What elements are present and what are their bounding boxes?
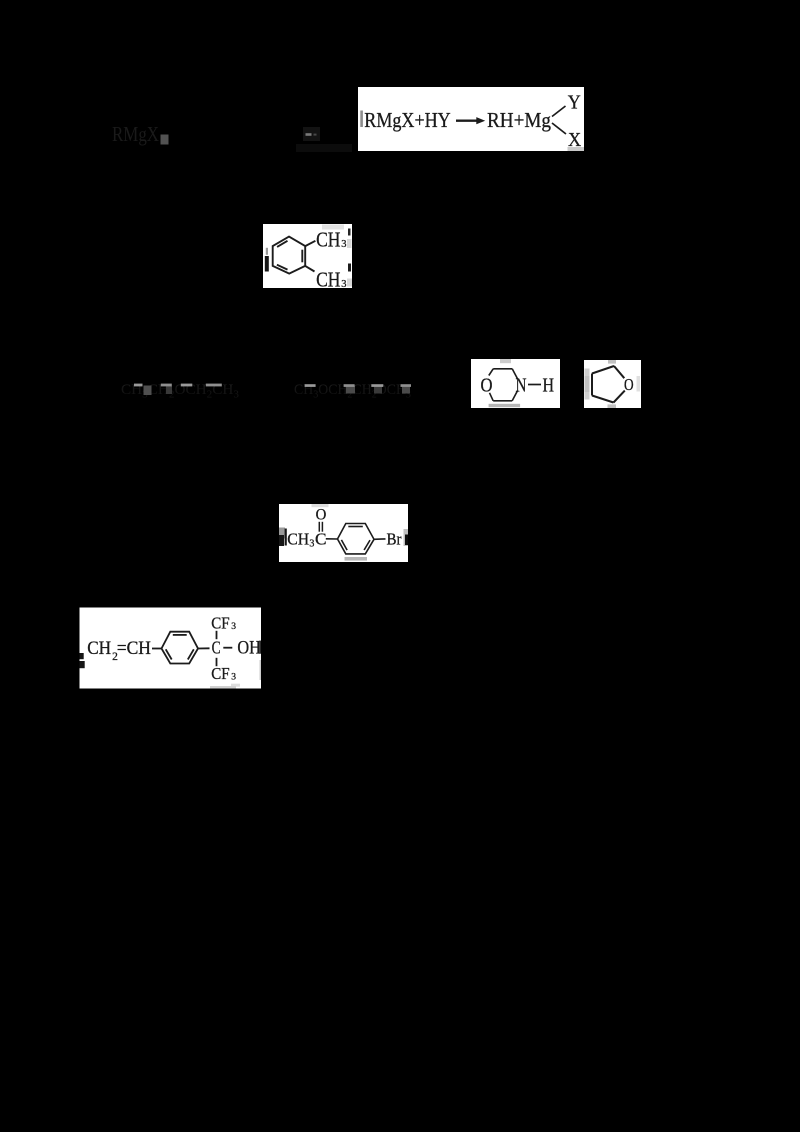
bond to lower CH3 [305,266,314,272]
svg-text:Y: Y [568,92,581,113]
right edge fragments [259,641,261,654]
gray smudge top [312,504,329,507]
svg-text:3: 3 [341,239,346,250]
benzene ring [338,524,375,554]
double bond top [348,526,363,528]
svg-text:3: 3 [341,279,346,290]
bond CH-ring [152,648,162,650]
ring edge bottom-left [592,396,614,403]
svg-text:CH: CH [316,268,340,292]
double bond lower-left [166,649,172,659]
svg-text:CH: CH [287,529,309,548]
right edge fragments [404,529,409,546]
white panel: o-xylene image [263,224,352,292]
bond N-H [528,384,541,386]
ring edge O to bottom [614,391,625,403]
white panel: morpholine image [471,359,560,408]
svg-text:3: 3 [231,673,236,683]
svg-text:Br: Br [387,530,402,549]
morpholine ring top edge [493,368,512,370]
ring edge to O lower [490,393,494,401]
white panel: styrene product image [80,608,262,689]
svg-text:3: 3 [309,538,314,549]
faint mark near x=305 [303,127,320,141]
faint underline band [296,144,352,152]
reaction arrow [456,120,478,122]
bond to upper CH3 [305,241,315,246]
svg-text:C: C [315,529,327,548]
bond C-CF3 up [216,631,218,639]
svg-text:RH+Mg: RH+Mg [487,108,551,132]
ring edge to N [512,369,517,379]
gray smudge right [637,376,641,392]
svg-text:RMgX: RMgX [112,122,159,146]
gray smudge bottom [608,404,617,408]
left edge glyph fragment [266,248,268,255]
svg-text:CH: CH [316,227,340,251]
ring edge N to bottom-right [512,391,517,401]
bond ring-C [198,647,210,649]
benzene ring [273,237,306,274]
double bond lower-right [188,649,194,659]
double bond lower-right [364,540,370,550]
bond C-OH [223,647,232,649]
THF ring left edge [591,374,593,396]
bright letter caps formula 1 [134,384,143,387]
ring bottom edge [493,400,512,402]
white panel: Grignard equation image [358,87,584,151]
ring edge to O [614,366,624,378]
double bond right [301,250,303,263]
bond C-ring [326,538,338,540]
svg-text:RMgX+HY: RMgX+HY [364,108,450,132]
left edge glyph fragment [80,653,84,659]
gray smudge bottom [489,404,520,407]
svg-text:N: N [516,375,527,396]
double bond lower-left [341,540,347,550]
gray smudge top [500,359,511,363]
benzene ring [162,632,199,664]
svg-text:O: O [316,507,327,524]
left edge fragments [279,528,285,539]
ring edge top-left [592,366,614,374]
gray smudge top [322,225,344,230]
svg-text:CF: CF [211,664,229,683]
double bond top [173,634,187,636]
bond C-CF3 down [216,658,218,666]
bond Mg-Y [552,106,566,117]
gray smudge left [585,369,590,400]
gray smudge bottom [345,557,368,561]
right edge glyph fragments [348,229,351,236]
svg-text:OH: OH [237,638,261,659]
double bond upper-left [277,241,287,247]
ring edge O to top-left [489,369,493,376]
svg-text:CH: CH [87,638,111,659]
gray corner artifact [568,147,585,151]
svg-text:=CH: =CH [117,638,152,659]
gray smudge top [608,360,616,364]
double bond lower-left [277,265,288,270]
bond ring-Br [374,538,386,540]
C=O double bond [318,522,320,532]
svg-text:O: O [481,375,493,396]
svg-text:C: C [212,637,221,657]
white panel: bromoacetophenone image [279,504,408,562]
svg-text:3: 3 [231,622,236,632]
svg-text:O: O [624,375,634,394]
gray tick artifact left edge [360,111,363,128]
svg-text:CF: CF [211,613,229,632]
svg-text:H: H [543,375,555,396]
bright letter caps formula 2 [305,384,316,387]
gray smudge bottom right [231,684,240,687]
bond Mg-X [552,123,566,134]
gray cursor square [161,135,169,145]
white panel: THF image [584,360,641,408]
